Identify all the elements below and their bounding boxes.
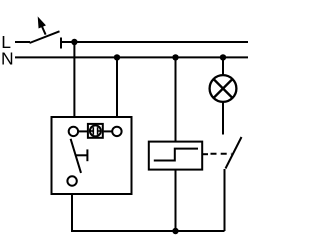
switch S1 blade (L line switch) [30,31,60,43]
wire from N dot down to relay K1 [175,57,177,141]
push-button S1 actuator rod [76,154,88,156]
node junction dot on N at x=175.5 [172,54,178,60]
actuation arrow [38,18,45,35]
wire N rail [15,56,248,58]
terminal circle bottom (output) [67,176,76,185]
push-button S1 actuator bar [86,149,88,161]
wire lamp E2 to contact K1 [222,102,224,135]
push-button unit box S1 [52,117,132,194]
glow lamp E1 square frame [88,124,103,138]
terminal circle top-left (L terminal) [69,127,78,136]
wire from L dot down to push-button box [73,42,75,117]
wire from N dot down to lamp E2 [222,57,224,75]
contact K1 blade [226,137,242,169]
svg-text:N: N [1,48,14,68]
glow lamp E1 circle [90,125,101,136]
terminal circle top-right (N terminal) [112,127,121,136]
wire from N dot down to push-button box [116,57,118,117]
wire left circle to glow-lamp square [78,130,87,132]
impulse relay K1 mechanical stub [202,153,208,155]
wire relay K1 bottom to rail [175,170,177,231]
push-button S1 blade [71,139,81,173]
glow lamp E1 electrodes [90,127,100,135]
wire L rail left segment [15,41,30,43]
impulse relay K1 step symbol [154,149,198,161]
node junction dot on bottom rail [172,228,178,234]
mechanical link dashed line [211,153,232,155]
impulse relay K1 box [149,142,202,170]
wire push-button box bottom down to bottom rail [71,194,73,231]
node junction dot on N at x=117 [114,54,120,60]
wire glow-lamp square to right circle [104,130,112,132]
wire contact K1 bottom to rail [224,169,226,231]
lamp E2 (circle with X) [210,75,237,102]
switch S1 fixed contact tick [60,38,62,49]
wire L rail right segment [61,41,248,43]
node junction dot on N at x=223 [220,54,226,60]
wire bottom rail [71,230,225,232]
node junction dot on L at x=74.4 [71,39,77,45]
